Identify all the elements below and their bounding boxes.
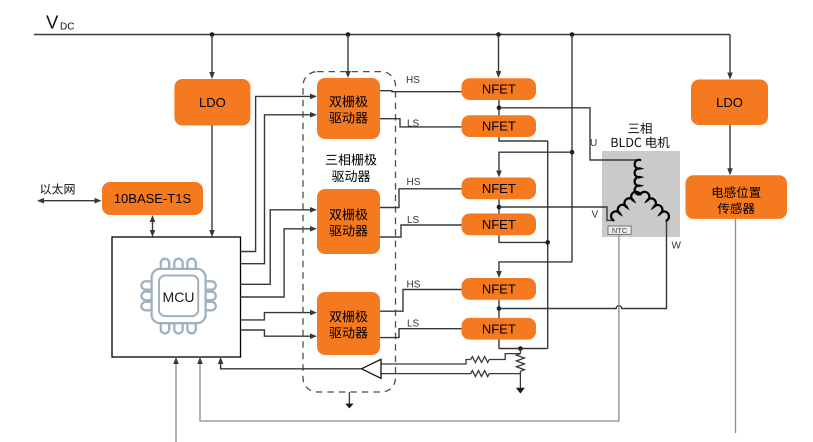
svg-text:NFET: NFET bbox=[482, 181, 516, 196]
wire MCU PWM5 to driver3 HS input bbox=[241, 313, 312, 320]
node phase V bbox=[497, 205, 502, 210]
label Ethernet 以太网 bbox=[41, 184, 51, 195]
svg-text:NFET: NFET bbox=[482, 321, 516, 336]
MCU chip icon pins bbox=[141, 259, 215, 334]
svg-text:10BASE-T1S: 10BASE-T1S bbox=[114, 191, 192, 206]
node VDC-HSfeed junction bbox=[570, 32, 575, 37]
wire NFET Q2 source to shunt rail bbox=[499, 137, 548, 141]
node shunt top bbox=[518, 346, 523, 351]
motor winding U (top coil) bbox=[635, 160, 641, 195]
gate driver U4 (dual gate driver, phase V) bbox=[317, 189, 380, 254]
wire position sensor output (grey) bbox=[735, 219, 737, 433]
wire VDC to LDO1 bbox=[211, 35, 213, 74]
wire NFET Q1 source to Q2 drain bbox=[498, 100, 500, 115]
inductive position sensor U7 bbox=[686, 175, 788, 219]
NTC thermistor box bbox=[608, 226, 631, 234]
wire NFET Q5 source to Q6 drain bbox=[498, 300, 500, 318]
motor winding W (right coil) bbox=[640, 192, 669, 221]
NFET Q1 (HS U) bbox=[462, 78, 537, 100]
shunt resistor R1 bbox=[519, 349, 521, 354]
node VDC-NFET1 junction bbox=[496, 32, 501, 37]
feedback resistor R3 (amp - input) bbox=[381, 373, 471, 375]
NFET Q3 (HS V) bbox=[462, 178, 537, 200]
svg-text:DC: DC bbox=[60, 21, 74, 32]
wire VDC feed to NFET Q3 drain bbox=[499, 152, 572, 172]
gate driver U5 (dual gate driver, phase W) bbox=[317, 292, 380, 355]
MCU chip icon body bbox=[152, 269, 206, 323]
label 三相栅极驱动器 bbox=[326, 155, 337, 165]
wire VDC feed to NFET Q5 drain bbox=[499, 262, 572, 273]
svg-text:LS: LS bbox=[407, 215, 420, 226]
wire driver2 LS gate to NFET Q4 bbox=[380, 225, 462, 237]
wire driver3 HS gate to NFET Q5 bbox=[380, 290, 462, 312]
feedback resistor R2 (amp + input) bbox=[381, 360, 471, 365]
node VDC-driver1 junction bbox=[346, 32, 351, 37]
wire driver2 HS gate to NFET Q3 bbox=[380, 189, 462, 208]
svg-text:V: V bbox=[46, 12, 59, 33]
svg-text:W: W bbox=[672, 241, 682, 252]
svg-text:NTC: NTC bbox=[612, 226, 628, 235]
wire VDC to NFET Q1 drain bbox=[498, 35, 500, 73]
PHY 10BASE-T1S bbox=[102, 182, 203, 215]
svg-text:U: U bbox=[590, 138, 597, 149]
node VDC-LDO1 junction bbox=[210, 32, 215, 37]
wire MCU external signal (bottom, grey) bbox=[175, 362, 177, 442]
gate driver U3 (dual gate driver, phase U) bbox=[317, 78, 380, 139]
wire 10BASE-T1S to MCU (bidirectional) bbox=[152, 220, 154, 232]
wire MCU PWM3 to driver2 HS input bbox=[241, 210, 312, 284]
NFET Q2 (LS U) bbox=[462, 115, 537, 137]
wire MCU PWM2 to driver1 LS input bbox=[241, 115, 312, 264]
wire NFET Q4 source to source bus bbox=[499, 235, 548, 242]
node phase U bbox=[497, 106, 502, 111]
svg-text:MCU: MCU bbox=[163, 289, 195, 305]
wire phase U to motor terminal U bbox=[499, 108, 640, 160]
node HS feed branch bbox=[570, 150, 575, 155]
MCU U1 box bbox=[112, 237, 241, 357]
wire driver1 HS gate to NFET Q1 bbox=[380, 91, 462, 92]
wire NTC signal to MCU (grey) bbox=[200, 234, 619, 421]
svg-text:LDO: LDO bbox=[199, 95, 226, 110]
NFET Q4 (LS V) bbox=[462, 214, 537, 236]
net low-side source bus bbox=[547, 141, 549, 349]
three-phase gate driver dashed group bbox=[303, 72, 396, 392]
wire NFET Q3 source to Q4 drain bbox=[498, 199, 500, 213]
wire NFET Q6 source to shunt node bbox=[499, 340, 548, 349]
ground (shunt) bbox=[516, 388, 525, 394]
node Q4 source junction bbox=[545, 240, 550, 245]
three-phase BLDC motor body bbox=[602, 151, 680, 237]
NFET Q5 (HS W) bbox=[462, 278, 537, 300]
wire Ethernet bus (bidirectional) bbox=[43, 200, 96, 202]
wire VDC to right LDO bbox=[729, 35, 731, 75]
wire driver3 LS gate to NFET Q6 bbox=[380, 329, 462, 338]
svg-text:V: V bbox=[592, 210, 599, 221]
wire driver1 LS gate to NFET Q2 bbox=[380, 119, 462, 127]
MCU chip icon inner die bbox=[159, 276, 198, 317]
svg-text:HS: HS bbox=[407, 280, 421, 291]
wire MCU PWM1 to driver1 HS input bbox=[241, 96, 312, 251]
wire phase W to motor terminal W (hops NTC line) bbox=[499, 221, 667, 309]
label 三相 BLDC 电机 bbox=[628, 124, 639, 133]
svg-text:NFET: NFET bbox=[482, 82, 516, 97]
NFET Q6 (LS W) bbox=[462, 318, 537, 340]
wire amp output to MCU ADC bbox=[221, 362, 362, 369]
power bus VDC bbox=[34, 34, 730, 36]
wire VDC to right LDO handled above; LDO U6 (right) bbox=[691, 80, 768, 126]
net VDC high-side feed rail bbox=[571, 35, 573, 262]
svg-text:LS: LS bbox=[407, 118, 420, 129]
wire VDC to gate driver 1 bbox=[347, 35, 349, 73]
wire LDO1 to MCU 3V3 bbox=[211, 126, 213, 232]
svg-text:NFET: NFET bbox=[482, 281, 516, 296]
wire MCU PWM4 to driver2 LS input bbox=[241, 229, 312, 297]
svg-text:NFET: NFET bbox=[482, 217, 516, 232]
svg-text:HS: HS bbox=[406, 75, 420, 86]
svg-text:LS: LS bbox=[407, 318, 420, 329]
svg-text:LDO: LDO bbox=[716, 95, 743, 110]
ground (gate driver group) bbox=[348, 392, 350, 404]
LDO U2 (left) bbox=[174, 79, 250, 126]
op-amp current sense A1 bbox=[362, 359, 382, 378]
node phase W bbox=[497, 306, 502, 311]
svg-text:HS: HS bbox=[407, 177, 421, 188]
wire phase V to motor terminal V bbox=[499, 207, 614, 220]
wire LDO right to position sensor bbox=[729, 125, 731, 170]
motor winding V (left coil) bbox=[611, 192, 640, 221]
wire MCU PWM6 to driver3 LS input bbox=[241, 330, 312, 336]
svg-text:NFET: NFET bbox=[482, 119, 516, 134]
